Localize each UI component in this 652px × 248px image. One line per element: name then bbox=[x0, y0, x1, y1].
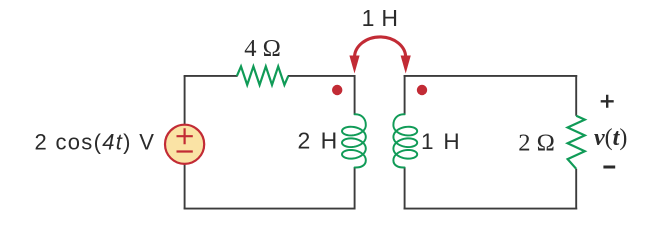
inductor L2 1H coil bbox=[393, 114, 417, 167]
voltage source minus sign bbox=[177, 150, 193, 152]
wire: left loop left vertical top (source top lead) bbox=[184, 76, 186, 125]
dot marking on L1 bbox=[332, 85, 342, 95]
wire: right loop right vertical below resistor R2 bbox=[575, 169, 577, 210]
wire: left loop right vertical below inductor L1 bbox=[354, 167, 356, 209]
arrowhead right of mutual arc bbox=[401, 56, 411, 74]
wire: right loop left vertical above inductor L2 bbox=[404, 75, 406, 115]
svg-text:4 Ω: 4 Ω bbox=[244, 35, 281, 62]
wire: right loop top bbox=[404, 75, 578, 77]
mutual inductance arc bbox=[355, 37, 406, 58]
svg-text:2 cos(4t) V: 2 cos(4t) V bbox=[35, 129, 156, 154]
inductor L1 2H coil bbox=[342, 114, 366, 167]
resistor R2 2-ohm zigzag bbox=[568, 116, 585, 169]
dot marking on L2 bbox=[417, 85, 427, 95]
minus sign of v(t) bbox=[603, 166, 615, 169]
svg-text:2 H: 2 H bbox=[298, 128, 340, 154]
wire: left loop top, left of resistor R1 bbox=[184, 75, 238, 77]
wire: right loop right vertical above resistor R2 bbox=[575, 75, 577, 116]
wire: right loop bottom bbox=[404, 208, 578, 210]
plus sign of v(t) bbox=[601, 95, 614, 108]
resistor R1 4-ohm zigzag bbox=[237, 66, 288, 85]
svg-text:2 Ω: 2 Ω bbox=[518, 130, 555, 157]
wire: left loop bottom bbox=[184, 208, 356, 210]
svg-text:1 H: 1 H bbox=[362, 5, 399, 31]
svg-text:1 H: 1 H bbox=[421, 129, 461, 154]
svg-text:v(t): v(t) bbox=[594, 125, 627, 151]
arrowhead left of mutual arc bbox=[349, 56, 359, 74]
voltage source plus sign bbox=[177, 128, 193, 144]
wire: right loop left vertical below inductor L2 bbox=[404, 167, 406, 209]
voltage source VS circle bbox=[165, 125, 204, 164]
wire: left loop right vertical above inductor L1 bbox=[354, 75, 356, 115]
wire: left loop left vertical bottom (source bottom lead) bbox=[184, 164, 186, 209]
wire: left loop top, right of resistor R1 bbox=[288, 75, 356, 77]
